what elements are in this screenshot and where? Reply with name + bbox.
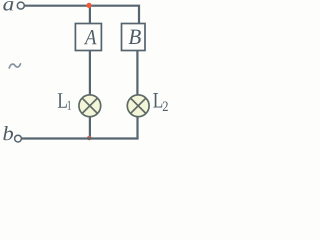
label A <box>84 30 96 44</box>
wire lamp L1 to bottom rail <box>89 117 91 139</box>
wire top rail <box>25 6 139 23</box>
label b <box>3 126 13 140</box>
label L2 <box>153 93 162 107</box>
node junction top <box>86 3 91 8</box>
wire bottom rail <box>22 137 139 139</box>
meter box A <box>75 24 101 51</box>
label L1 subscript 1 <box>68 101 71 110</box>
lamp L2 <box>127 95 149 117</box>
wire lamp L2 to bottom rail <box>136 117 138 139</box>
label a <box>3 1 13 11</box>
wire box A to lamp L1 <box>89 51 91 96</box>
terminal a <box>17 2 24 9</box>
lamp L1 <box>79 95 101 117</box>
node junction bottom <box>87 136 92 141</box>
label L2 subscript 2 <box>163 101 168 111</box>
terminal b <box>15 135 22 142</box>
label L1 <box>58 93 67 108</box>
label B <box>129 30 141 44</box>
meter box B <box>122 24 146 51</box>
AC source symbol tilde <box>9 64 20 68</box>
wire box B to lamp L2 <box>136 51 138 96</box>
wire top to box A <box>89 6 91 23</box>
